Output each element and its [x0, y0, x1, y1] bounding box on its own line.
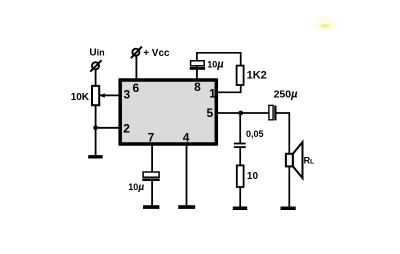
supply terminal +Vcc — [131, 47, 142, 59]
ground (0,05/10 chain) — [233, 207, 247, 211]
wire cap to ground — [151, 181, 153, 205]
yellow smudge — [316, 16, 336, 32]
wire input to pot — [95, 69, 97, 88]
wire pin 2 — [96, 127, 120, 129]
svg-text:250µ: 250µ — [274, 89, 299, 101]
ground (pin 4) — [178, 205, 195, 209]
wire pin 8 — [196, 66, 198, 80]
capacitor 0,05 — [234, 143, 246, 148]
ground (speaker) — [281, 207, 296, 211]
svg-text:10µ: 10µ — [128, 182, 144, 193]
svg-text:1: 1 — [209, 87, 216, 101]
wire junction to 0,05 — [239, 113, 241, 143]
svg-text:10µ: 10µ — [207, 58, 224, 70]
wire pin 5 — [216, 112, 269, 114]
junction node pin5 — [238, 111, 243, 116]
capacitor C1 10µ — [190, 61, 205, 70]
svg-text:5: 5 — [207, 106, 214, 120]
wire pin 1 — [216, 85, 241, 92]
wire 0,05 to resistor 10 — [239, 148, 241, 165]
resistor 1K2 — [237, 66, 244, 85]
ground (pin 7) — [143, 205, 159, 209]
svg-text:8: 8 — [194, 80, 201, 94]
svg-text:2: 2 — [123, 121, 130, 135]
potentiometer wiper arrow — [99, 93, 104, 97]
svg-text:3: 3 — [123, 88, 130, 102]
svg-text:10: 10 — [247, 171, 259, 182]
svg-text:4: 4 — [183, 130, 190, 144]
wire speaker to ground — [288, 166, 290, 206]
wire pin 3 — [100, 94, 120, 96]
capacitor C2 10µ (pin 7) — [142, 172, 159, 181]
potentiometer 10K — [92, 86, 99, 105]
svg-text:1K2: 1K2 — [247, 70, 267, 82]
speaker RL — [286, 142, 303, 178]
IC U1 — [120, 80, 216, 144]
input terminal Uin — [90, 60, 101, 71]
wire pot to ground — [95, 105, 97, 155]
wire pin 7 — [151, 144, 153, 172]
svg-text:6: 6 — [133, 81, 140, 95]
wire pin 4 — [186, 144, 188, 205]
capacitor 250µ — [269, 105, 277, 120]
wire pin 6 — [135, 56, 137, 80]
svg-text:7: 7 — [148, 130, 155, 144]
wire resistor to ground — [239, 187, 241, 207]
resistor 10 — [237, 165, 244, 187]
svg-text:10K: 10K — [71, 92, 90, 103]
junction node pin2 — [93, 125, 98, 130]
wire cap to 1K2 top — [197, 53, 241, 66]
ground (input) — [88, 155, 102, 158]
wire cap to speaker — [277, 113, 290, 154]
svg-text:0,05: 0,05 — [246, 129, 264, 139]
svg-text:Uin: Uin — [89, 48, 104, 59]
svg-text:+ Vcc: + Vcc — [143, 48, 170, 59]
